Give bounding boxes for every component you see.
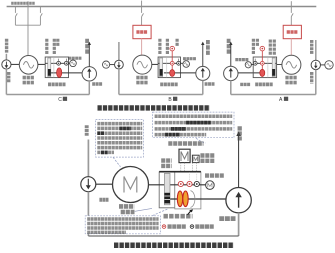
red node 2 (working oil)	[187, 181, 192, 186]
gear box (bottom)	[159, 172, 175, 208]
red control line A	[261, 51, 263, 71]
red shaft node B	[170, 61, 174, 65]
red coupling element B	[170, 70, 175, 77]
riser to boiler (bottom)	[238, 135, 240, 187]
lower shaft (bottom)	[166, 198, 227, 200]
lower shaft B to pump	[164, 72, 196, 74]
water line A lower	[315, 70, 317, 95]
motor A 给水泵电动机	[282, 55, 301, 74]
leader box2 to oil cooler	[196, 138, 206, 143]
pump C stem	[88, 81, 90, 95]
bold top edge of boxes	[159, 171, 201, 173]
red control line B	[171, 51, 173, 71]
feed pump A 给水泵	[224, 66, 238, 80]
labels above box B	[158, 39, 161, 55]
VFD B output line to motor	[141, 39, 143, 55]
label 润滑油冷油器	[200, 153, 215, 157]
shaft node black A	[253, 61, 257, 65]
legend working oil pump	[162, 225, 166, 229]
callout box 3	[85, 216, 160, 234]
aux oil pump C 辅助油泵	[70, 60, 77, 67]
label 自除氧器 (C)	[5, 39, 8, 54]
motor A label	[285, 76, 297, 80]
red node 1 (working oil)	[178, 181, 183, 186]
box divider B	[166, 57, 168, 78]
feed pump B 给水泵	[196, 66, 210, 80]
shaft node 2 C	[64, 61, 68, 65]
pump B label	[205, 82, 215, 85]
pump B stem	[202, 80, 204, 94]
node stubs C	[59, 59, 67, 62]
motor label (bottom)	[119, 204, 134, 209]
callout box 1	[96, 120, 144, 158]
caption bottom figure	[114, 242, 234, 248]
label 前置泵 (A)	[310, 72, 313, 84]
pump C label	[92, 82, 102, 85]
coupling box C 液力耦合器	[45, 57, 68, 78]
bus stub C	[27, 1, 29, 6]
water line upper (bottom)	[87, 140, 89, 177]
leader arrow to coupling	[188, 210, 192, 214]
motor C label	[23, 76, 35, 80]
gear bar A	[272, 58, 275, 77]
VFD box B 变频器	[133, 25, 151, 38]
label below box C 液力耦合器	[48, 83, 66, 87]
shaft motor-gearbox C	[38, 63, 45, 65]
lower shaft A from pump	[238, 72, 262, 74]
legend lube oil pump	[190, 225, 194, 229]
motor C 给水泵电动机	[19, 56, 38, 75]
coupling box A 液力耦合器	[253, 57, 276, 78]
upper shaft inside B	[158, 62, 183, 64]
coupling box (bottom)	[175, 172, 201, 209]
gear bar (bottom)	[164, 173, 170, 204]
label 给水泵 (bottom)	[219, 216, 236, 221]
water line A upper	[315, 40, 317, 60]
scoop pump symbol above box A (red)	[260, 46, 265, 51]
label below box B 液力耦合器	[160, 83, 178, 87]
scoop tube arc	[191, 191, 195, 208]
upper shaft (bottom)	[149, 184, 206, 186]
feeder C tie bar	[15, 24, 40, 26]
small oil pump box M	[192, 155, 199, 162]
pump A label	[240, 83, 250, 86]
red shaft node A	[260, 61, 264, 65]
link shaft B pair	[110, 64, 115, 66]
booster pump 前置泵 (bottom)	[81, 177, 96, 192]
upper shaft A	[251, 63, 282, 64]
booster pump B 前置泵	[115, 60, 124, 69]
VFD box A 变频器	[283, 25, 301, 38]
label below box A 液力耦合器	[255, 83, 273, 87]
label 工作油冷油器	[168, 141, 203, 145]
box divider A	[267, 57, 269, 78]
box divider C	[53, 57, 55, 78]
feed pump (bottom) 给水泵	[226, 188, 251, 213]
motor M 给水泵电动机	[113, 167, 149, 203]
labels above box C 增速齿轮/调速工作油泵	[45, 39, 48, 55]
aux oil pump A 辅助油泵	[245, 62, 251, 68]
link shaft A pair	[321, 64, 325, 66]
booster motor A	[325, 61, 333, 69]
label 前置泵 (C)	[7, 72, 10, 83]
feeder B drop with disconnect	[142, 7, 144, 26]
VFD A output line to motor	[290, 39, 292, 56]
callout box 2	[153, 112, 234, 138]
node stub A	[254, 59, 256, 62]
booster motor B	[103, 61, 110, 68]
booster pump C 前置泵	[2, 60, 11, 69]
feeder C drop 1 with disconnect	[15, 7, 17, 26]
working oil tank box with pump M	[179, 149, 190, 162]
svg-text:C: C	[58, 97, 62, 103]
riser to boiler A 去锅炉	[230, 45, 232, 67]
bold words in box 1	[97, 128, 131, 152]
rail A	[231, 94, 316, 96]
shaft booster-motor (bottom)	[96, 183, 113, 185]
rail C	[6, 94, 89, 96]
label 液力耦合器 (bottom)	[164, 214, 193, 219]
label 辅助油泵	[205, 173, 225, 177]
label 去锅炉 (bottom)	[238, 126, 242, 140]
label 自除氧器 (bottom)	[85, 125, 89, 136]
bus 10kV	[7, 6, 317, 8]
feeder C drop 2 with disconnect	[40, 7, 42, 26]
bottom rail	[88, 235, 238, 237]
upper shaft inside C	[45, 62, 70, 64]
red coupling element C	[57, 68, 62, 78]
leader motor label	[135, 208, 152, 211]
shaft booster-motor C	[11, 63, 19, 65]
black node (lube oil)	[194, 181, 199, 186]
hydraulic coupling red wheels	[177, 191, 182, 207]
node stub B	[178, 59, 180, 62]
bus stub A	[290, 1, 292, 6]
label 自除氧器 (A)	[310, 40, 313, 55]
oil lines dashed from tank	[181, 163, 197, 181]
oil line dashes inside coupling	[190, 172, 197, 181]
riser to boiler C 去锅炉	[88, 45, 90, 67]
bus label 10kV母线A段	[11, 2, 35, 5]
feeder C stem to motor	[27, 7, 29, 56]
shaft node 1 C	[57, 61, 61, 65]
BOTTOM-FIGURE	[81, 112, 252, 245]
pump stem (bottom)	[238, 213, 240, 236]
leader box3 to gearbox	[153, 209, 169, 216]
booster pump A 前置泵	[311, 60, 320, 69]
feed pump C 给水泵	[82, 67, 96, 81]
water line B upper	[118, 42, 120, 60]
lower shaft C to pump	[51, 72, 82, 74]
motor B label	[136, 76, 148, 80]
label 前置泵 (bottom)	[99, 198, 108, 202]
motor B 给水泵电动机	[133, 55, 152, 74]
leader box1 to motor	[113, 157, 121, 167]
labels above box A	[252, 39, 255, 55]
coupling box B 液力耦合器	[158, 57, 180, 78]
shaft motor-gearbox B	[152, 63, 158, 65]
water line B lower	[118, 69, 120, 95]
caption top figure	[98, 105, 211, 110]
gear bar B	[160, 58, 163, 77]
aux oil pump M circle	[206, 181, 215, 190]
shaft node black B	[177, 61, 181, 65]
bold numbers in box 2	[186, 121, 211, 125]
scoop pump symbol above box B (red)	[170, 46, 175, 51]
water line lower (bottom)	[87, 192, 89, 236]
riser to boiler B 去锅炉	[202, 45, 204, 67]
water line C upper	[5, 54, 7, 60]
rail B	[119, 94, 203, 96]
red coupling element A	[260, 69, 265, 76]
pump A stem	[230, 81, 232, 95]
gear bar C	[48, 58, 51, 77]
water line C lower	[5, 69, 7, 94]
bus stub B	[141, 1, 143, 7]
label 增速齿轮	[161, 158, 171, 162]
feeder A drop with disconnect	[291, 7, 293, 26]
aux oil pump B 辅助油泵	[183, 61, 190, 68]
TOP-FIGURE	[2, 1, 333, 108]
